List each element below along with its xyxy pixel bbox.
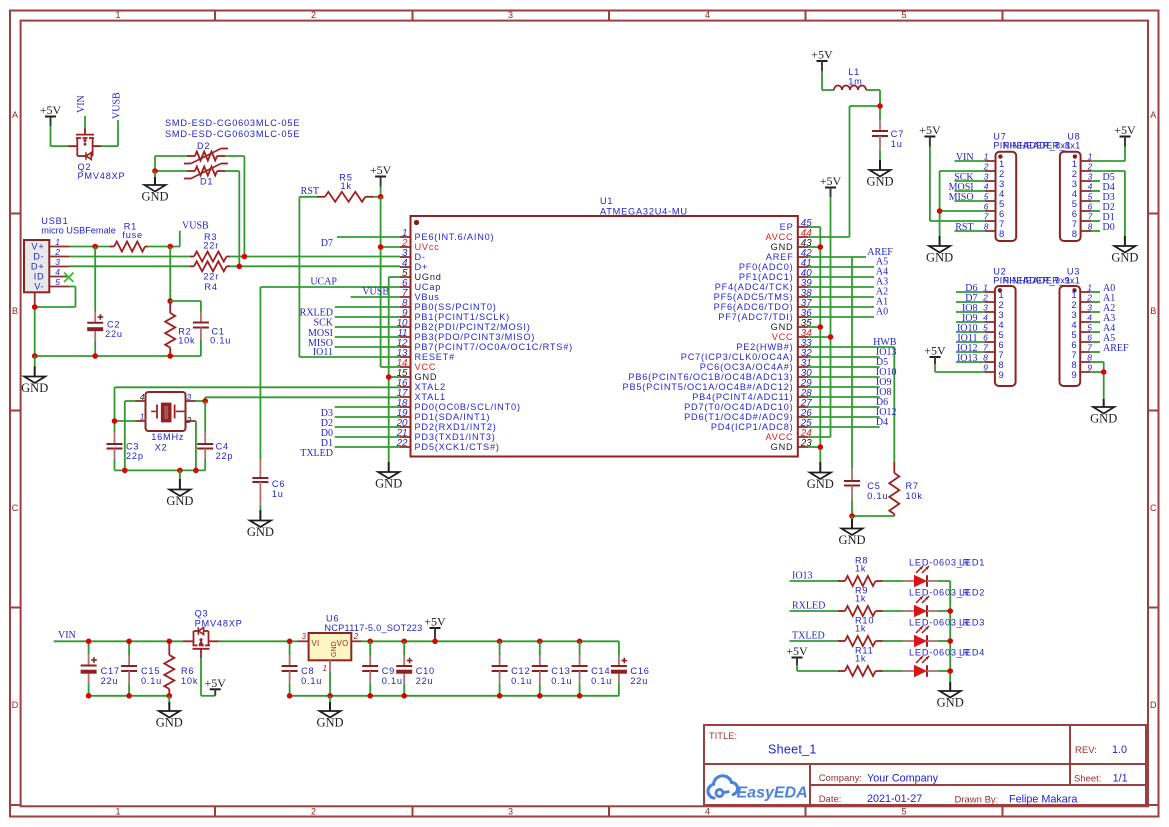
svg-text:R6: R6 [181, 666, 194, 676]
net label A4 [876, 267, 888, 278]
svg-text:1k: 1k [855, 564, 866, 574]
junction gnd R6 [167, 693, 173, 699]
net label AREF (U3) [1103, 343, 1129, 354]
power +5V (U7) [919, 123, 985, 221]
label 1k (R10) [855, 624, 866, 634]
wire crystal ground rail [115, 469, 206, 471]
svg-text:+5V: +5V [40, 103, 62, 117]
label 22r (R3) [203, 240, 219, 250]
svg-text:PB3(PDO/PCINT3/MISO): PB3(PDO/PCINT3/MISO) [415, 332, 536, 342]
wire R to LED2 [883, 610, 904, 612]
svg-text:7: 7 [1087, 343, 1092, 353]
wire AREF to C5 [851, 257, 853, 468]
wire A2 [808, 296, 874, 298]
svg-text:1u: 1u [272, 489, 284, 499]
net label IO13 (U1) [876, 347, 897, 358]
wire TXLED to R10 [790, 640, 839, 642]
svg-text:8: 8 [1088, 222, 1093, 232]
power +5V (top-left) [40, 103, 62, 146]
wire XTAL2 to C3 column [115, 387, 401, 432]
junction gnd C10 [401, 693, 407, 699]
svg-text:C5: C5 [867, 481, 880, 491]
svg-text:fuse: fuse [122, 230, 143, 240]
svg-text:7: 7 [983, 343, 988, 353]
svg-text:1: 1 [115, 807, 120, 817]
ground GND (U8) [1111, 236, 1138, 265]
svg-text:C6: C6 [272, 479, 285, 489]
net label MOSI [308, 328, 333, 339]
wire LED3 to GND column [938, 640, 950, 642]
svg-text:EP: EP [780, 222, 794, 232]
junction VIN R6 [167, 639, 173, 645]
label C17 [101, 666, 120, 676]
svg-text:XTAL2: XTAL2 [415, 382, 446, 392]
svg-text:8: 8 [1072, 229, 1077, 240]
svg-text:PD6(T1/OC4D#/ADC9): PD6(T1/OC4D#/ADC9) [684, 412, 793, 422]
wire U8 pin1 [1091, 160, 1125, 162]
svg-text:V+: V+ [31, 242, 44, 252]
label USB1 [41, 216, 68, 226]
svg-text:XTAL1: XTAL1 [415, 392, 446, 402]
label 1k (R5) [341, 181, 352, 191]
net label D3 [321, 408, 333, 419]
svg-text:10k: 10k [906, 491, 923, 501]
svg-text:PD5(XCK1/CTS#): PD5(XCK1/CTS#) [415, 442, 500, 452]
svg-text:5: 5 [983, 323, 988, 333]
svg-text:LED2: LED2 [959, 588, 985, 598]
resistor R5 [317, 192, 373, 202]
svg-text:5: 5 [901, 807, 906, 817]
label Q3 [195, 609, 209, 619]
wire U2 pin8 [956, 361, 984, 363]
svg-text:IO11: IO11 [313, 347, 333, 358]
svg-text:22: 22 [396, 438, 408, 449]
varistor D1 [184, 164, 228, 179]
power +5V (R11) [786, 644, 838, 671]
title block frame [704, 725, 1146, 805]
svg-text:0.1u: 0.1u [551, 676, 572, 686]
svg-text:4: 4 [705, 807, 710, 817]
svg-text:GND: GND [247, 525, 274, 539]
svg-text:8: 8 [984, 222, 989, 232]
svg-text:VUSB: VUSB [182, 221, 209, 232]
svg-text:1k: 1k [341, 181, 352, 191]
wire U3 pin6 [1091, 341, 1100, 343]
wire U3 pin8 [1091, 362, 1104, 372]
junction gnd C15 [126, 693, 132, 699]
label R7 [906, 481, 919, 491]
power +5V (Q3 gate) [204, 676, 226, 696]
net label D5 (U1) [876, 357, 888, 368]
junction gnd C8 [287, 693, 293, 699]
svg-text:PE6(INT.6/AIN0): PE6(INT.6/AIN0) [415, 232, 495, 242]
net label A1 (U3) [1103, 293, 1115, 304]
capacitor C2 22u [87, 247, 103, 357]
label U3 [1067, 267, 1080, 277]
wire U2 pin5 [956, 331, 984, 333]
svg-text:10k: 10k [178, 336, 195, 346]
wire UGnd pin5 [389, 276, 400, 278]
label C13 [551, 666, 570, 676]
resistor R3 [190, 252, 230, 262]
net label SCK (U7) [954, 172, 974, 183]
capacitor C7 1u [872, 120, 888, 160]
svg-text:D2: D2 [197, 141, 210, 151]
wire pin23 GND [808, 446, 820, 448]
junction gnd C17 [86, 693, 92, 699]
frame row ticks left [10, 214, 21, 806]
junction gnd C14 [577, 693, 583, 699]
net label IO8 (U2) [962, 303, 978, 314]
wire RST to R5 [299, 196, 317, 198]
label 0.1u (C9) [382, 676, 403, 686]
svg-text:Sheet:: Sheet: [1074, 774, 1101, 785]
svg-text:22r: 22r [203, 272, 219, 282]
svg-text:1k: 1k [855, 594, 866, 604]
title Sheet_1 [768, 743, 817, 757]
svg-text:GND: GND [771, 242, 794, 252]
value Felipe Makara [1009, 794, 1077, 806]
net label IO11 [313, 347, 333, 358]
junction VIN C15 [126, 639, 132, 645]
svg-text:U1: U1 [600, 196, 613, 206]
svg-text:GND: GND [926, 251, 953, 265]
wire USB ground rail [35, 355, 201, 357]
wire V+ to R1 [69, 246, 110, 248]
svg-text:A: A [1150, 110, 1156, 120]
svg-text:C16: C16 [630, 666, 649, 676]
svg-text:PMV48XP: PMV48XP [195, 619, 243, 629]
junction D- / D2 [242, 254, 248, 260]
junction out C12 [497, 639, 503, 645]
svg-text:5: 5 [1088, 192, 1093, 202]
frame row ticks right [1148, 214, 1159, 806]
svg-text:1/1: 1/1 [1113, 773, 1128, 785]
svg-text:2: 2 [982, 293, 988, 303]
wire to pin2 UVcc [381, 246, 400, 248]
ground GND (under U1) [375, 462, 402, 491]
wire R5 to +5V column [373, 196, 381, 198]
svg-text:C12: C12 [511, 666, 530, 676]
svg-text:LED1: LED1 [959, 558, 985, 568]
svg-text:Q3: Q3 [195, 609, 209, 619]
junction rail gnd [177, 468, 183, 474]
label fuse [122, 230, 143, 240]
power +5V (L1) [811, 48, 834, 91]
junction out C9 [367, 639, 373, 645]
svg-text:22p: 22p [216, 451, 234, 461]
net label HWB [873, 337, 897, 348]
svg-text:2: 2 [1087, 162, 1093, 172]
wire pin19 [335, 416, 400, 418]
label C3 [126, 441, 139, 451]
svg-text:+5V: +5V [786, 644, 808, 658]
svg-text:C10: C10 [416, 666, 435, 676]
svg-text:UCap: UCap [415, 282, 442, 292]
wire LED4 to GND column [938, 670, 950, 672]
svg-text:+5V: +5V [919, 123, 941, 137]
label 22u (C16) [630, 676, 648, 686]
label 0.1u (C15) [141, 676, 162, 686]
label SMD-ESD-CG0603MLC-05E (D2) [165, 118, 300, 128]
svg-text:8: 8 [1087, 353, 1092, 363]
svg-text:A0: A0 [876, 307, 888, 318]
wire A0 [808, 316, 874, 318]
capacitor C17 22u [81, 641, 97, 696]
svg-text:3: 3 [508, 807, 513, 817]
svg-text:GND: GND [331, 641, 338, 657]
resistor R1 fuse [110, 242, 148, 252]
svg-text:1: 1 [115, 10, 120, 20]
net label D4 (U1) [876, 417, 888, 428]
svg-text:GND: GND [866, 175, 893, 189]
label LED-0603_R LED1 [909, 558, 985, 568]
wire U8 pin5 [1091, 200, 1100, 202]
svg-text:AREF: AREF [766, 252, 794, 262]
svg-text:PINHEADER_8x1: PINHEADER_8x1 [1003, 141, 1080, 151]
wire U3 pin5 [1091, 331, 1100, 333]
led LED1 LED-0603_R [903, 566, 938, 587]
power +5V (R5) [370, 163, 392, 197]
wire pin11 [335, 336, 400, 338]
svg-text:D: D [12, 700, 19, 710]
wire VIN to Q2 gate [84, 116, 86, 128]
svg-text:A: A [12, 110, 18, 120]
label NCP1117-5.0_SOT223 [324, 623, 422, 633]
svg-text:9: 9 [998, 370, 1003, 381]
wire U7 pin1 [955, 160, 986, 162]
label SMD-ESD-CG0603MLC-05E (D1) [165, 129, 300, 139]
wire U7 pin5 [955, 200, 986, 202]
svg-text:VCC: VCC [772, 332, 794, 342]
svg-text:ID: ID [34, 272, 45, 282]
label R10 [855, 616, 874, 626]
svg-text:UGnd: UGnd [415, 272, 442, 282]
svg-text:LED3: LED3 [959, 618, 985, 628]
svg-text:Sheet_1: Sheet_1 [768, 743, 817, 757]
svg-text:PD1(SDA/INT1): PD1(SDA/INT1) [415, 412, 491, 422]
wire R to LED1 [883, 580, 904, 582]
svg-text:GND: GND [156, 716, 183, 730]
junction LED4 [947, 668, 953, 674]
svg-text:2: 2 [54, 247, 60, 257]
net label D7 (U2) [965, 293, 977, 304]
svg-text:4: 4 [984, 182, 989, 192]
svg-text:4: 4 [705, 10, 710, 20]
capacitor C3 22p [107, 432, 123, 470]
wire D7 to pin1 [337, 236, 400, 238]
wire C1 top branch [170, 301, 201, 312]
connector USB1 micro USBFemale [24, 237, 69, 307]
regulator U6 NCP1117-5.0_SOT223 [298, 632, 362, 696]
wire D6 (U1) [808, 406, 879, 408]
label 1m (L1) [848, 77, 862, 87]
svg-text:RST: RST [301, 186, 319, 197]
svg-text:22u: 22u [101, 676, 119, 686]
wire U2 pin3 [956, 311, 984, 313]
wire L1 to C7 [866, 90, 880, 120]
wire pin20 [335, 426, 400, 428]
svg-text:22u: 22u [416, 676, 434, 686]
net label A5 [876, 257, 888, 268]
label PINHEADER_8x1 (U8) [1003, 141, 1080, 151]
wire VIN rail [54, 640, 183, 642]
svg-text:PF1(ADC1): PF1(ADC1) [739, 272, 794, 282]
label R3 [204, 232, 217, 242]
wire U3 pin3 [1091, 311, 1100, 313]
label 22r (R4) [203, 272, 219, 282]
svg-text:3: 3 [187, 392, 192, 402]
label 22u (C2) [105, 329, 123, 339]
svg-text:+5V: +5V [924, 344, 946, 358]
frame column numbers top [115, 10, 906, 20]
svg-text:USB1: USB1 [41, 216, 68, 226]
wire crystal pin1 to C3 column [115, 420, 136, 422]
svg-text:Your Company: Your Company [867, 773, 939, 785]
label C1 [212, 326, 225, 336]
net label MISO [308, 338, 333, 349]
svg-text:C13: C13 [551, 666, 570, 676]
label R5 [339, 172, 352, 182]
svg-text:C: C [1150, 503, 1157, 513]
net label IO13 (LED) [792, 571, 813, 582]
led LED2 LED-0603_R [903, 596, 938, 617]
wire IO10 (U1) [808, 376, 879, 378]
junction pin3/C4 [202, 398, 208, 404]
wire LED2 to GND column [938, 610, 950, 612]
label 22p (C3) [126, 451, 144, 461]
resistor R10 1k [838, 636, 883, 646]
label 1k (R11) [855, 654, 866, 664]
power +5V (U6 out) [424, 615, 446, 642]
svg-text:R4: R4 [204, 282, 217, 292]
frame column ticks bottom [215, 806, 1003, 816]
wire GND column (pin5/15) [388, 277, 390, 462]
svg-text:1: 1 [984, 152, 989, 162]
svg-text:TXLED: TXLED [300, 448, 333, 459]
svg-text:1k: 1k [855, 624, 866, 634]
capacitor C5 0.1u [844, 468, 860, 516]
label 10k (R6) [181, 676, 198, 686]
net label AREF [867, 247, 893, 258]
svg-text:2: 2 [186, 415, 192, 425]
frame row letters right [1150, 110, 1157, 710]
ground GND (U1 right) [807, 462, 834, 491]
label C2 [107, 320, 120, 330]
resistor R2 10k [165, 301, 175, 356]
junction rail pin2 [193, 468, 199, 474]
svg-text:6: 6 [984, 202, 989, 212]
transistor Q3 PMV48XP [183, 627, 219, 658]
junction out C13 [537, 639, 543, 645]
svg-text:8: 8 [983, 353, 988, 363]
svg-text:10k: 10k [181, 676, 198, 686]
ground GND (crystal) [166, 470, 193, 508]
svg-text:6: 6 [983, 333, 988, 343]
wire U2 pin2 [956, 301, 984, 303]
junction gnd C9 [367, 693, 373, 699]
label U1 [600, 196, 613, 206]
wire Q2 to VUSB [101, 120, 118, 146]
svg-text:PINHEADER_9x1: PINHEADER_9x1 [1003, 275, 1080, 285]
wire pin22 [335, 446, 400, 448]
svg-text:9: 9 [983, 363, 988, 373]
svg-text:GND: GND [771, 442, 794, 452]
svg-text:PC6(OC3A/OC4A#): PC6(OC3A/OC4A#) [700, 362, 794, 372]
label U8 [1067, 132, 1080, 142]
wire AVCC pin44 from L1 [808, 106, 880, 237]
svg-text:0.1u: 0.1u [301, 676, 322, 686]
junction pin2 feed [378, 244, 384, 250]
label PMV48XP [78, 171, 126, 181]
net label IO10 (U1) [876, 367, 897, 378]
svg-text:TITLE:: TITLE: [709, 731, 737, 741]
svg-text:PB0(SS/PCINT0): PB0(SS/PCINT0) [415, 302, 497, 312]
svg-text:4: 4 [55, 267, 60, 277]
junction LED3 [947, 638, 953, 644]
wire V- route to ground rail [35, 287, 76, 357]
wire U2 pin6 [956, 341, 984, 343]
wire UCap to C6 column [260, 286, 400, 288]
wire D- to R3 [69, 256, 190, 258]
svg-text:VUSB: VUSB [112, 92, 123, 119]
svg-text:D-: D- [415, 252, 426, 262]
wire U3 pin9 to GND [1091, 372, 1104, 399]
net label A3 [876, 277, 888, 288]
svg-text:PD3(TXD1/INT3): PD3(TXD1/INT3) [415, 432, 496, 442]
svg-text:0.1u: 0.1u [511, 676, 532, 686]
net label RST [301, 186, 319, 197]
net label A4 (U3) [1103, 323, 1115, 334]
svg-text:1: 1 [983, 283, 988, 293]
net label A0 [876, 307, 888, 318]
svg-text:5: 5 [55, 277, 60, 287]
svg-text:PD7(T0/OC4D/ADC10): PD7(T0/OC4D/ADC10) [684, 402, 793, 412]
svg-text:Felipe Makara: Felipe Makara [1009, 794, 1077, 806]
frame row letters left [12, 110, 19, 710]
svg-text:+5V: +5V [820, 174, 842, 188]
label 10k (R7) [906, 491, 923, 501]
svg-text:VUSB: VUSB [362, 287, 389, 298]
svg-text:C8: C8 [301, 666, 314, 676]
wire Q3 to U6 [219, 640, 298, 642]
svg-text:GND: GND [771, 322, 794, 332]
ground GND (C6) [247, 510, 274, 539]
svg-text:3: 3 [983, 303, 988, 313]
svg-text:7: 7 [984, 212, 989, 222]
svg-text:8: 8 [999, 229, 1004, 240]
svg-text:VIN: VIN [76, 95, 87, 113]
capacitor C10 22u [396, 641, 412, 696]
svg-text:3: 3 [55, 257, 60, 267]
svg-text:PF0(ADC0): PF0(ADC0) [739, 262, 794, 272]
wire U8 pin7 [1091, 220, 1100, 222]
wire supply ground rail right [290, 695, 619, 697]
svg-text:3: 3 [508, 10, 513, 20]
svg-text:4: 4 [1088, 182, 1093, 192]
label 0.1u (C14) [591, 676, 612, 686]
net label IO11 (U2) [957, 333, 977, 344]
label Drawn By: [955, 795, 999, 806]
capacitor C14 0.1u [572, 641, 588, 696]
net label A2 [876, 287, 888, 298]
crystal X2 16MHz [136, 392, 196, 431]
label REV: [1075, 745, 1097, 756]
label LED-0603_R LED4 [909, 648, 985, 658]
net label UCAP [310, 277, 337, 288]
label Q2 [78, 162, 92, 172]
net label VIN (U7) [956, 152, 974, 163]
